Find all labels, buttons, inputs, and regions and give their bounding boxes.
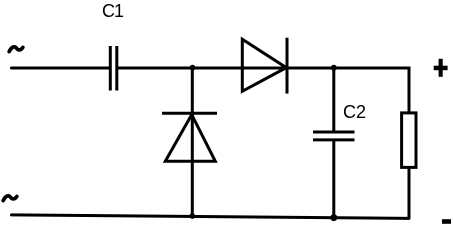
wire top left segment [12,67,110,70]
capacitor C1 left plate [109,46,112,91]
minus terminal label [442,219,451,224]
resistor R1 body [402,113,416,167]
diode D1 cathode bar (shunt) [162,112,217,115]
wire bottom rail [12,215,410,219]
plus terminal label [434,59,448,77]
wire C2 branch upper [332,68,335,131]
diode D2 triangle (series, pointing right) [242,39,286,91]
node A junction dot top left [190,65,196,71]
wire top right segment [118,68,409,112]
capacitor C1 right plate [115,46,118,91]
AC source symbol top tilde [9,47,23,52]
AC source symbol bottom tilde [3,196,17,201]
diode D1 triangle (shunt, pointing up) [165,115,215,162]
wire resistor lower lead [408,168,411,218]
wire C2 branch lower [332,141,335,218]
diode D2 cathode bar [286,38,289,94]
wire shunt diode branch vertical [191,68,194,216]
label C2 [343,102,366,123]
node B junction dot top right [331,65,337,71]
capacitor C2 bottom plate [313,138,355,141]
label C1 [102,1,123,22]
capacitor C2 top plate [313,131,355,134]
node C junction dot bottom left [189,213,195,219]
node D junction dot bottom right [330,214,337,221]
